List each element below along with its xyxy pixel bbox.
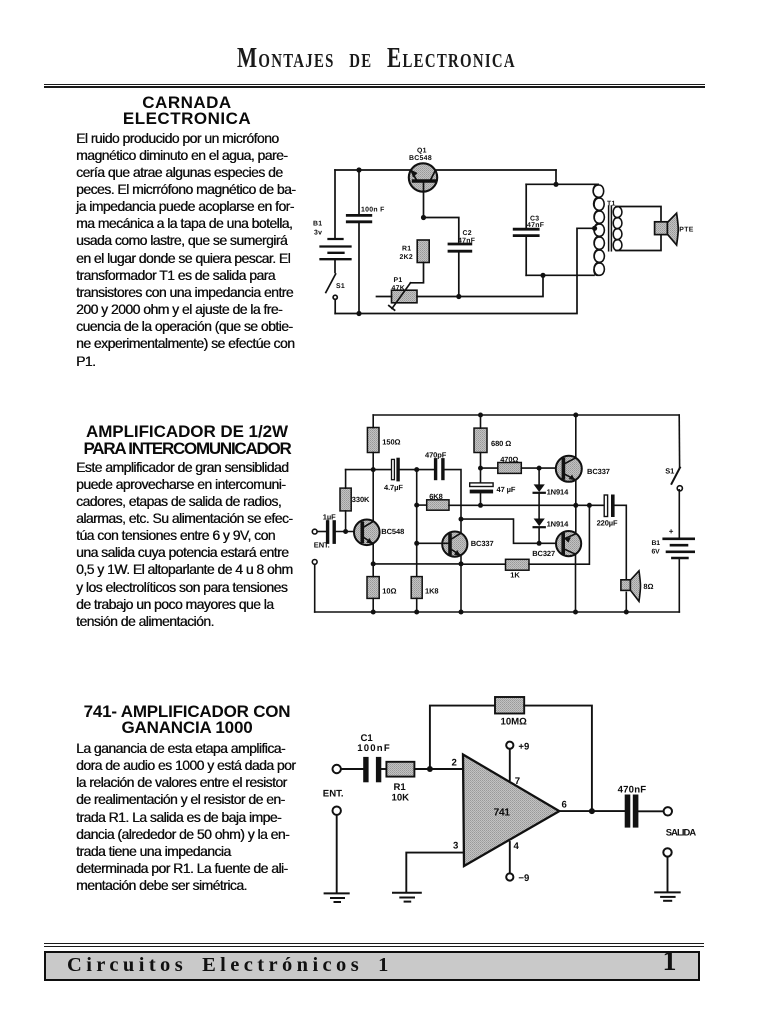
transistor BC327 collector leg <box>564 549 576 612</box>
wire 1K8 bottom lead <box>416 598 418 612</box>
wire bias node horizontal <box>346 469 392 471</box>
wire battery to bottom rail <box>678 559 680 613</box>
battery B1 plates <box>321 239 351 259</box>
node 6K8 left <box>414 503 419 508</box>
footer double rule <box>44 943 704 945</box>
article 2 title <box>67 424 307 457</box>
wire feedback riser <box>430 706 495 769</box>
node rail 680 <box>478 413 483 418</box>
resistor 10M body <box>495 697 524 714</box>
input terminal ENT upper <box>312 529 317 534</box>
wire rail drop to switch <box>678 415 680 468</box>
resistor 470 body <box>498 463 522 474</box>
footer page number <box>663 946 677 978</box>
node bottom of 100nF branch <box>356 311 361 316</box>
wire 150 leads <box>372 415 374 428</box>
svg-text:4.7µF: 4.7µF <box>384 483 403 492</box>
svg-text:47K: 47K <box>392 285 406 292</box>
transformer T1 primary winding <box>593 184 604 275</box>
switch S1 lever <box>326 274 336 293</box>
svg-text:ENT.: ENT. <box>323 789 344 800</box>
article 1 body text <box>76 130 308 370</box>
node diode chain top <box>537 466 542 471</box>
node R150/collector <box>371 467 376 472</box>
svg-text:ENT.: ENT. <box>314 541 330 550</box>
svg-text:1K8: 1K8 <box>425 587 438 596</box>
wire 4.7uF to 470pF <box>400 469 434 471</box>
salida lower terminal <box>663 848 671 856</box>
transistor BC548 emitter leg <box>363 537 373 564</box>
wire terminal to 1uF <box>317 531 326 533</box>
wire battery to switch <box>334 259 336 273</box>
svg-text:1N914: 1N914 <box>547 519 570 528</box>
svg-text:3: 3 <box>453 841 458 852</box>
node 10R ground <box>371 610 376 615</box>
transistor BC337 driver collector leg <box>451 519 461 539</box>
svg-text:P1: P1 <box>394 277 403 284</box>
wire 1K line <box>461 563 506 565</box>
transistor Q1 base bar <box>414 179 435 182</box>
wire totem link <box>575 505 577 534</box>
wire 220uF to speaker <box>615 505 627 580</box>
wire switch to bottom rail <box>334 300 336 314</box>
wire 1K to output node <box>529 505 589 564</box>
wire output node rail <box>449 504 604 506</box>
transistor BC337 output emitter leg <box>564 474 576 506</box>
header running title <box>0 45 760 76</box>
wire C3 bottom to primary bottom <box>526 274 594 276</box>
node 470pF/x417 branch <box>414 467 419 472</box>
wire bottom rail <box>335 228 594 313</box>
transistor BC337 driver base bar <box>448 535 452 553</box>
svg-text:BC337: BC337 <box>587 467 610 476</box>
diode 1N914 upper <box>534 484 545 492</box>
svg-text:PTE: PTE <box>679 227 693 234</box>
svg-text:470nF: 470nF <box>618 784 647 795</box>
wire top rail drop to C3/primary node <box>555 170 557 184</box>
resistor 1K8 body <box>411 577 422 599</box>
circuit 2: 1/2W intercom amplifier schematic <box>305 405 695 620</box>
wire 10R leads <box>372 564 374 577</box>
resistor 1K body <box>506 559 530 570</box>
wire P1 to C3 node <box>417 275 543 296</box>
wire C1 to R1 <box>382 768 387 770</box>
transistor Q1 body <box>409 163 437 191</box>
wire bottom ground rail <box>315 611 680 613</box>
footer book title <box>67 954 393 977</box>
terminal -9 <box>506 873 513 880</box>
transistor Q1 base lead down <box>423 183 425 218</box>
wire secondary to speaker loop <box>616 207 661 251</box>
wire 470nF to salida <box>639 810 664 812</box>
wire feedback to output <box>524 706 592 812</box>
svg-text:7: 7 <box>515 776 520 787</box>
svg-text:S1: S1 <box>665 467 674 476</box>
capacitor 47uF plates <box>470 483 493 487</box>
svg-text:B1: B1 <box>313 220 322 227</box>
battery B1 lead <box>334 170 336 238</box>
resistor R1 body <box>386 762 414 777</box>
svg-text:R1: R1 <box>394 782 407 793</box>
node collector rail / C3 junction <box>553 182 558 187</box>
svg-text:BC337: BC337 <box>471 539 494 548</box>
circuit 3: 741 gain-1000 amplifier schematic <box>315 685 705 910</box>
input terminal ENT lower <box>312 560 317 565</box>
svg-text:S1: S1 <box>336 283 345 290</box>
transistor BC337 output base bar <box>562 460 566 479</box>
svg-text:6: 6 <box>562 800 567 811</box>
wire 330K leads <box>345 470 347 489</box>
resistor 10R body <box>367 577 379 599</box>
resistor 150 body <box>367 428 379 453</box>
transistor BC327 emitter leg <box>564 534 576 539</box>
svg-text:B1: B1 <box>652 540 661 547</box>
svg-text:1N914: 1N914 <box>547 488 570 497</box>
input terminal ENT <box>333 765 341 773</box>
capacitor 470nF plates <box>628 797 636 825</box>
wire ENT to C1 <box>341 768 363 770</box>
transistor BC337 driver emitter arrow <box>454 550 460 556</box>
svg-text:330K: 330K <box>352 495 370 504</box>
transistor BC337 output emitter arrow <box>569 475 575 481</box>
svg-text:220µF: 220µF <box>597 519 618 528</box>
switch S1 contact <box>677 486 682 491</box>
svg-text:BC548: BC548 <box>381 527 404 536</box>
transistor BC337 driver body <box>442 532 467 557</box>
wire node to C2 <box>424 218 459 243</box>
wire base jog to BC327 <box>461 519 556 543</box>
capacitor 220uF plates <box>604 495 607 517</box>
wire lower terminal to rail <box>314 564 316 612</box>
svg-text:−9: −9 <box>518 873 529 884</box>
node 1K/output <box>587 503 592 508</box>
node output/feedback <box>589 808 595 814</box>
transistor BC327 body <box>556 531 581 556</box>
pin 4 wire <box>509 842 511 873</box>
svg-text:741: 741 <box>494 807 511 818</box>
svg-text:100n F: 100n F <box>361 206 385 213</box>
svg-text:+9: +9 <box>518 742 529 753</box>
transistor BC327 emitter arrow <box>565 537 572 542</box>
node driver emitter <box>459 561 464 566</box>
input lower terminal <box>333 807 341 815</box>
ground input <box>325 893 349 902</box>
node C2 / P1 wire <box>456 294 461 299</box>
transistor Q1 emitter arrow <box>411 170 418 178</box>
node P1/C3/primary junction <box>540 273 545 278</box>
wire 680 leads <box>480 415 482 428</box>
transistor BC548 emitter arrow <box>366 538 372 544</box>
wire top rail <box>335 169 556 171</box>
svg-text:6V: 6V <box>652 549 661 556</box>
capacitor C3 plates <box>514 229 538 235</box>
svg-text:BC327: BC327 <box>532 549 555 558</box>
diode 1N914 lower <box>534 519 545 527</box>
svg-text:10K: 10K <box>392 793 410 804</box>
node Q1 base / R1 / C2 <box>421 215 426 220</box>
capacitor C1 plates <box>366 760 379 780</box>
node speaker ground <box>624 610 629 615</box>
svg-text:+: + <box>669 527 674 536</box>
circuit 1: carnada electronica schematic <box>300 140 710 325</box>
wire diode chain <box>538 468 540 485</box>
header double rule <box>44 84 705 85</box>
article 1 title <box>67 95 307 128</box>
battery B1 plates <box>664 539 695 558</box>
wire output <box>559 810 624 812</box>
svg-text:4: 4 <box>514 841 520 852</box>
op-amp U1 741 triangle <box>463 755 559 867</box>
speaker PTE cone <box>667 213 678 245</box>
wire salida lower to ground <box>667 857 669 892</box>
wire speaker to rail <box>625 592 627 612</box>
transistor BC337 output body <box>556 456 582 482</box>
article 3 title <box>67 704 307 737</box>
transistor BC337 driver emitter leg <box>451 549 461 564</box>
capacitor C3 branch wires <box>525 184 527 227</box>
svg-text:8Ω: 8Ω <box>643 582 653 591</box>
speaker 8R cone <box>630 571 640 602</box>
capacitor 100nF branch wires <box>358 170 360 214</box>
svg-text:C2: C2 <box>463 230 472 237</box>
transistor BC548 body <box>354 520 380 546</box>
svg-text:100nF: 100nF <box>357 743 391 754</box>
pin 3 wire <box>406 853 463 892</box>
svg-text:1µF: 1µF <box>323 512 336 521</box>
node 47uF/output rail <box>478 503 483 508</box>
transistor Q1 collector/emitter legs <box>411 171 417 181</box>
svg-text:T1: T1 <box>607 201 616 208</box>
wire switch to battery <box>678 490 680 537</box>
wire 1uF to base <box>336 531 354 533</box>
svg-text:1K: 1K <box>510 571 520 580</box>
svg-text:470pF: 470pF <box>425 450 447 459</box>
transformer T1 core <box>608 206 610 251</box>
wire C2 bottom <box>458 253 460 297</box>
svg-text:R1: R1 <box>402 245 411 252</box>
switch S1 lever <box>672 468 681 484</box>
svg-text:470Ω: 470Ω <box>500 455 518 464</box>
capacitor 470pF plates <box>436 460 443 479</box>
svg-text:2: 2 <box>452 757 457 768</box>
wire C3 top branch <box>526 183 597 185</box>
svg-text:SALIDA: SALIDA <box>666 826 697 837</box>
node T1 center tap <box>592 226 597 231</box>
resistor R1 body <box>417 240 429 263</box>
node diode chain bottom / BC327 base <box>537 541 542 546</box>
speaker 8R magnet <box>621 580 631 591</box>
wire 470 left lead <box>481 467 498 469</box>
potentiometer P1 wiper arrow <box>392 283 411 309</box>
wire emitter rail <box>373 563 461 565</box>
svg-text:3v: 3v <box>314 229 322 236</box>
wire 47uF bottom lead <box>480 493 482 505</box>
wire P1 left stub <box>377 296 392 298</box>
node driver emitter ground <box>459 610 464 615</box>
terminal +9 <box>506 742 513 749</box>
article 3 body text <box>76 740 308 894</box>
article 2 body text <box>76 459 308 631</box>
footer bar <box>44 951 700 982</box>
node BC337 base tap <box>414 541 419 546</box>
ground salida <box>655 892 680 900</box>
node top of 100nF branch <box>356 167 361 172</box>
svg-text:47 µF: 47 µF <box>497 485 516 494</box>
speaker PTE magnet <box>655 222 668 235</box>
wire BC337 driver base <box>417 542 448 544</box>
node 680/470 <box>478 466 483 471</box>
node emitter/10R <box>371 561 376 566</box>
wire lower terminal to ground <box>336 815 338 893</box>
wire 470pF right to drop <box>445 470 461 519</box>
node BC327 ground <box>573 610 578 615</box>
potentiometer P1 body <box>392 290 418 303</box>
svg-text:150Ω: 150Ω <box>382 438 400 447</box>
capacitor 4.7uF plates <box>392 459 395 479</box>
resistor 6K8 body <box>427 500 449 510</box>
resistor 330K body <box>340 488 351 511</box>
wire top supply rail <box>373 414 679 416</box>
wire 470 right lead <box>521 467 556 469</box>
wire x417 vertical branch <box>416 470 418 577</box>
ground pin3 <box>393 893 421 902</box>
wire R1 to pin2 <box>414 768 463 770</box>
svg-text:BC548: BC548 <box>409 155 432 162</box>
svg-text:680 Ω: 680 Ω <box>491 439 511 448</box>
terminal SALIDA <box>664 807 672 815</box>
svg-text:10Ω: 10Ω <box>382 587 396 596</box>
wire R1 bottom to wiper <box>411 263 424 283</box>
node totem output <box>573 503 578 508</box>
resistor 680 body <box>474 428 487 452</box>
node feedback/pin2 <box>427 766 433 772</box>
transistor BC548 base bar <box>360 523 364 541</box>
svg-text:47nF: 47nF <box>527 222 544 229</box>
transformer T1 secondary winding <box>613 207 622 251</box>
node driver collector <box>459 517 464 522</box>
transistor BC327 base bar <box>561 535 565 553</box>
switch S1 contact <box>333 295 337 299</box>
svg-text:2K2: 2K2 <box>400 254 414 261</box>
node base/330K <box>343 529 348 534</box>
transistor BC337 output collector leg <box>564 415 576 464</box>
svg-text:47nF: 47nF <box>458 237 475 244</box>
svg-text:10MΩ: 10MΩ <box>501 717 528 728</box>
svg-text:6K8: 6K8 <box>429 492 442 501</box>
wire 6K8 left lead <box>417 504 427 506</box>
capacitor C2 plates <box>449 244 471 251</box>
capacitor 100nF plates <box>347 215 371 221</box>
capacitor 1uF plates <box>328 522 335 542</box>
svg-text:Q1: Q1 <box>417 147 427 154</box>
node 1K8 ground <box>414 610 419 615</box>
pin 7 wire <box>509 749 511 780</box>
transistor BC548 collector leg <box>363 470 373 528</box>
wire driver emitter to ground <box>460 564 462 612</box>
node output collector rail <box>573 413 578 418</box>
